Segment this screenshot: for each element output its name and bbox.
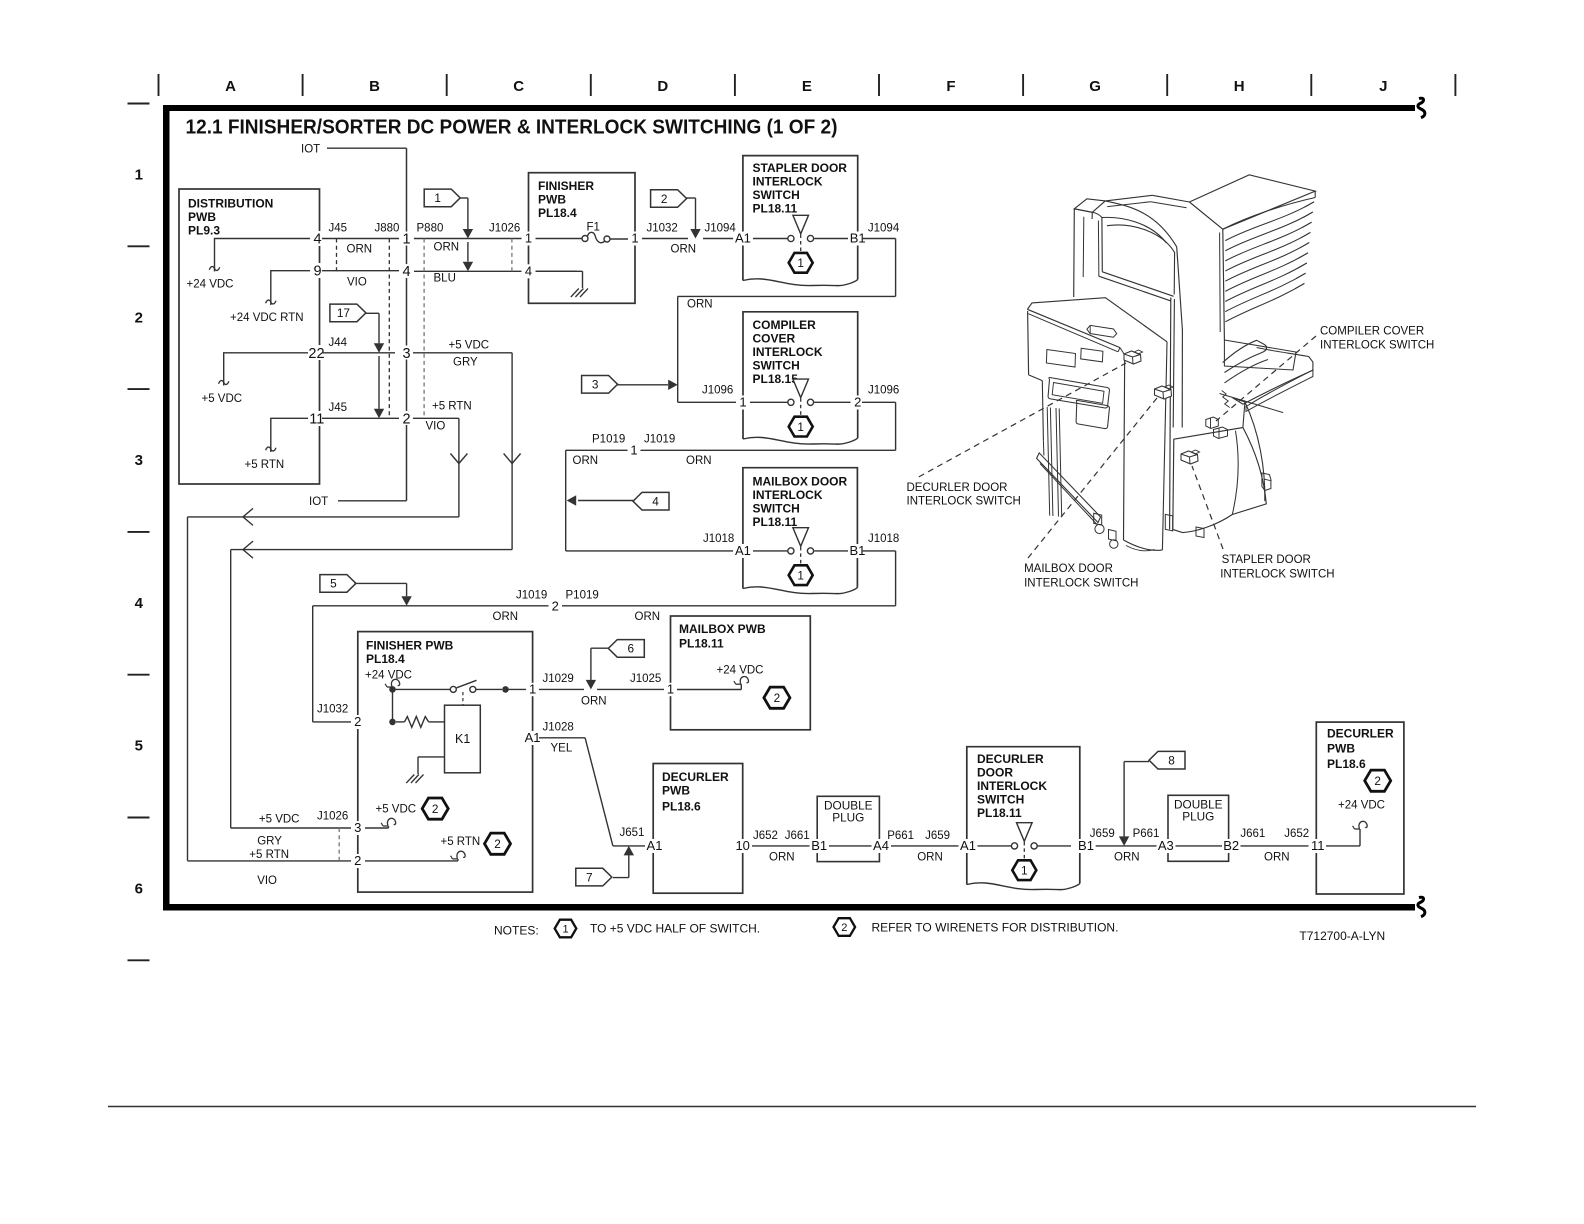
pin A1 J1028 (finisher PWB right) <box>523 730 543 745</box>
svg-text:1: 1 <box>797 420 804 434</box>
svg-text:MAILBOX DOOR: MAILBOX DOOR <box>753 475 848 489</box>
finisher/sorter machine illustration <box>1027 175 1315 551</box>
svg-text:J44: J44 <box>329 337 348 349</box>
J1032 label <box>317 704 348 716</box>
svg-text:J1019: J1019 <box>516 590 547 602</box>
pin A1 J651 (decurler PWB) <box>645 838 664 853</box>
svg-text:+24 VDC: +24 VDC <box>187 279 234 291</box>
svg-text:2: 2 <box>1374 774 1381 788</box>
svg-text:J652: J652 <box>1284 828 1309 840</box>
svg-text:6: 6 <box>628 642 635 656</box>
svg-text:F: F <box>946 78 955 95</box>
svg-text:PL18.6: PL18.6 <box>1327 757 1366 771</box>
svg-text:2: 2 <box>854 395 861 410</box>
connector label J1094 (left) <box>705 223 737 235</box>
svg-text:MAILBOX PWB: MAILBOX PWB <box>679 622 766 636</box>
wire ORN compiler pin 2 to mailbox switch A1 <box>566 402 896 551</box>
svg-text:2: 2 <box>432 802 439 816</box>
connector label J44 <box>329 337 348 349</box>
svg-text:PWB: PWB <box>538 193 566 207</box>
svg-text:4: 4 <box>402 264 410 280</box>
svg-text:A1: A1 <box>960 838 976 853</box>
connector label J1096 (right) <box>868 385 899 397</box>
svg-text:P1019: P1019 <box>566 590 599 602</box>
svg-text:+5 RTN: +5 RTN <box>249 849 289 861</box>
svg-text:J661: J661 <box>785 830 810 842</box>
pin 9 (distribution PWB) <box>311 263 326 280</box>
svg-text:3: 3 <box>402 346 410 362</box>
pointer flag 3 <box>582 376 678 394</box>
svg-text:+5 RTN: +5 RTN <box>432 401 472 413</box>
svg-text:J1032: J1032 <box>647 223 678 235</box>
svg-text:ORN: ORN <box>581 696 607 708</box>
pointer flag 1 (to +24VDC wires) <box>424 189 473 271</box>
svg-text:INTERLOCK: INTERLOCK <box>753 488 823 502</box>
label compiler cover interlock switch <box>1320 326 1434 352</box>
svg-text:A1: A1 <box>735 231 751 246</box>
title <box>186 117 838 139</box>
pin 4 J45 (distribution PWB) <box>311 231 326 248</box>
svg-text:A1: A1 <box>735 543 751 558</box>
svg-text:+5 VDC: +5 VDC <box>449 340 490 352</box>
svg-text:PL18.11: PL18.11 <box>679 637 724 651</box>
svg-text:PWB: PWB <box>188 210 216 224</box>
leader to decurler door interlock switch <box>919 363 1126 477</box>
svg-text:E: E <box>802 78 812 95</box>
svg-text:F1: F1 <box>587 222 600 234</box>
svg-text:COMPILER COVER: COMPILER COVER <box>1320 326 1424 338</box>
connector label J880 <box>375 223 400 235</box>
svg-text:ORN: ORN <box>573 455 599 467</box>
wire ORN double plug B2 to J652-11 <box>1240 828 1310 864</box>
svg-text:J651: J651 <box>620 827 645 839</box>
svg-text:J1019: J1019 <box>644 434 675 446</box>
svg-text:DECURLER: DECURLER <box>977 752 1044 766</box>
drawing number T712700-A-LYN <box>1299 929 1385 943</box>
svg-text:J1026: J1026 <box>489 223 520 235</box>
svg-text:A1: A1 <box>525 730 541 745</box>
fuse F1 <box>582 222 610 243</box>
svg-text:1: 1 <box>562 924 568 936</box>
svg-text:PWB: PWB <box>662 784 690 798</box>
svg-text:J659: J659 <box>1090 828 1115 840</box>
label decurler door interlock switch <box>907 482 1021 508</box>
svg-text:1: 1 <box>739 395 746 410</box>
+24 VDC stub (distribution PWB pin 4) <box>187 239 311 291</box>
svg-text:INTERLOCK: INTERLOCK <box>977 779 1047 793</box>
svg-text:DOOR: DOOR <box>977 766 1013 780</box>
pointer flag 7 <box>576 846 634 886</box>
svg-text:+24 VDC RTN: +24 VDC RTN <box>230 312 304 324</box>
pointer flag 5 <box>320 575 412 606</box>
svg-text:1: 1 <box>797 568 804 582</box>
svg-text:ORN: ORN <box>493 611 519 623</box>
wire inside double plug 1 <box>829 845 872 847</box>
svg-text:1: 1 <box>797 256 804 270</box>
svg-text:GRY: GRY <box>257 836 282 848</box>
+24 VDC RTN stub (distribution PWB pin 9) <box>230 271 310 324</box>
svg-text:NOTES:: NOTES: <box>494 924 539 938</box>
note hexagon 2 <box>834 918 856 936</box>
pin A1 mailbox switch <box>733 543 753 558</box>
svg-text:PL18.15: PL18.15 <box>753 372 799 386</box>
pin B1 double plug 1 <box>810 838 830 853</box>
IOT label (top) <box>301 144 407 156</box>
svg-text:MAILBOX DOOR: MAILBOX DOOR <box>1024 563 1113 575</box>
stapler door interlock switch PL18.11 <box>743 156 858 286</box>
J1026 connector dash (top) <box>511 239 513 272</box>
svg-text:DECURLER: DECURLER <box>662 770 729 784</box>
svg-text:INTERLOCK SWITCH: INTERLOCK SWITCH <box>1024 578 1138 590</box>
wire inside double plug 2 <box>1176 845 1223 847</box>
wire +5VDC GRY (J44-22 to P880-3) <box>322 340 512 369</box>
svg-text:1: 1 <box>667 682 674 697</box>
decurler PWB PL18.6 (left) <box>653 764 743 894</box>
finisher PWB PL18.4 (top) <box>529 173 636 304</box>
svg-text:DECURLER DOOR: DECURLER DOOR <box>907 482 1008 494</box>
svg-text:1: 1 <box>525 231 532 246</box>
pin 4 J1026 (finisher PWB left) <box>522 263 536 278</box>
wire ORN decurler B1 to double plug A3 <box>1090 828 1160 864</box>
connector label J45 <box>329 223 348 235</box>
svg-text:1: 1 <box>1021 863 1028 877</box>
pin A3 double plug 2 <box>1157 838 1176 853</box>
+5 RTN stub (distribution PWB pin 11) <box>245 418 311 471</box>
leader to compiler cover interlock switch <box>1216 336 1316 421</box>
svg-text:7: 7 <box>586 870 593 884</box>
svg-text:IOT: IOT <box>309 496 328 508</box>
+24 VDC stub wire (decurler PWB right) <box>1326 821 1367 846</box>
svg-text:J1025: J1025 <box>630 673 661 685</box>
svg-text:FINISHER PWB: FINISHER PWB <box>366 639 454 653</box>
connector label J1018 (right) <box>868 533 899 545</box>
svg-text:4: 4 <box>525 263 532 278</box>
svg-text:J659: J659 <box>925 830 950 842</box>
svg-text:+5 VDC: +5 VDC <box>202 393 243 405</box>
svg-text:INTERLOCK: INTERLOCK <box>753 175 823 189</box>
pin A1 decurler switch <box>959 838 978 853</box>
svg-text:GRY: GRY <box>453 357 478 369</box>
connector label J1096 (left) <box>702 385 733 397</box>
note 1 text <box>590 922 760 936</box>
pin 2 J1019 (lower) <box>549 599 563 614</box>
pointer flag 17 (to +5V wires) <box>330 304 384 418</box>
svg-text:2: 2 <box>354 714 361 729</box>
mailbox door interlock switch PL18.11 <box>743 468 858 594</box>
svg-text:REFER TO WIRENETS FOR DISTRIBU: REFER TO WIRENETS FOR DISTRIBUTION. <box>872 921 1119 935</box>
svg-text:B2: B2 <box>1223 838 1239 853</box>
finisher PWB PL18.4 (bottom) <box>358 632 533 893</box>
svg-text:SWITCH: SWITCH <box>753 502 800 516</box>
svg-text:INTERLOCK SWITCH: INTERLOCK SWITCH <box>1320 340 1434 352</box>
svg-text:ORN: ORN <box>687 299 713 311</box>
IOT label (bottom) <box>309 496 407 508</box>
note 2 text <box>872 921 1119 935</box>
connector label J1032 <box>647 223 678 235</box>
mailbox door interlock switch icon <box>1155 385 1174 399</box>
wire YEL J1028-A1 to J651-A1 <box>539 722 645 846</box>
svg-text:ORN: ORN <box>769 852 795 864</box>
wire +5VDC GRY routing (to J1026-3) <box>231 353 521 848</box>
footer rule <box>108 1106 1476 1108</box>
J1026 connector dash (bottom) <box>338 828 340 861</box>
svg-text:P1019: P1019 <box>592 434 625 446</box>
svg-text:ORN: ORN <box>347 244 373 256</box>
svg-text:ORN: ORN <box>686 455 712 467</box>
svg-text:T712700-A-LYN: T712700-A-LYN <box>1299 929 1385 943</box>
svg-text:J652: J652 <box>753 830 778 842</box>
relay K1 coil <box>396 705 480 773</box>
K1 relay contact switch <box>393 680 527 705</box>
+5 RTN stub with hexagon 2 (finisher PWB) <box>364 833 511 861</box>
svg-text:J1028: J1028 <box>543 722 574 734</box>
svg-text:TO +5 VDC HALF OF SWITCH.: TO +5 VDC HALF OF SWITCH. <box>590 922 760 936</box>
svg-text:J1018: J1018 <box>868 533 899 545</box>
svg-text:5: 5 <box>135 738 143 755</box>
svg-text:PL18.6: PL18.6 <box>662 800 701 814</box>
svg-text:3: 3 <box>135 452 143 469</box>
connector label P880 <box>417 223 444 235</box>
pin 11 J652 (decurler PWB right) <box>1309 838 1328 853</box>
svg-text:ORN: ORN <box>434 242 460 254</box>
svg-text:J1032: J1032 <box>317 704 348 716</box>
svg-text:2: 2 <box>774 691 781 705</box>
svg-text:2: 2 <box>135 309 143 326</box>
svg-text:J1096: J1096 <box>868 385 899 397</box>
decurler door interlock switch PL18.11 <box>967 747 1080 890</box>
svg-text:K1: K1 <box>455 732 470 746</box>
pin 1 J1032 (finisher PWB right) <box>628 231 642 246</box>
leader to mailbox door interlock switch <box>1028 396 1159 559</box>
pointer flag 8 <box>1119 751 1185 846</box>
P880 connector line (IOT boundary) <box>406 148 408 501</box>
svg-text:P661: P661 <box>887 830 914 842</box>
svg-text:J880: J880 <box>375 223 400 235</box>
double plug (left) <box>817 796 879 861</box>
svg-text:J1026: J1026 <box>317 811 348 823</box>
svg-text:C: C <box>513 78 524 95</box>
connector label J1018 (left) <box>703 533 734 545</box>
svg-text:D: D <box>657 78 668 95</box>
svg-text:11: 11 <box>309 411 324 427</box>
wire +24VDC RTN BLU (P880-4 to J1026-4) <box>413 271 577 284</box>
P880 connector dash (gray) <box>423 239 425 417</box>
pin 2 P880 <box>399 411 414 427</box>
svg-text:INTERLOCK: INTERLOCK <box>753 345 823 359</box>
decurler PWB PL18.6 (right) <box>1316 722 1404 894</box>
wire ORN J652-10 to double plug B1 <box>752 830 810 864</box>
svg-text:J45: J45 <box>329 402 348 414</box>
mailbox PWB PL18.11 <box>671 616 811 730</box>
chassis ground (K1) <box>406 757 444 783</box>
pin 3 P880 <box>399 346 414 362</box>
compiler cover interlock switch PL18.15 <box>743 312 858 444</box>
svg-text:2: 2 <box>552 599 559 614</box>
+24 VDC stub and junction (finisher PWB) <box>365 670 412 726</box>
svg-text:DISTRIBUTION: DISTRIBUTION <box>188 197 273 211</box>
svg-text:3: 3 <box>354 820 361 835</box>
svg-text:J1018: J1018 <box>703 533 734 545</box>
svg-text:ORN: ORN <box>917 852 943 864</box>
mailbox switch contacts <box>749 528 851 585</box>
svg-text:2: 2 <box>354 853 361 868</box>
svg-text:STAPLER DOOR: STAPLER DOOR <box>1222 554 1311 566</box>
connector label J1026 <box>489 223 520 235</box>
wire ORN stapler B1 to compiler switch pin 1 <box>678 239 896 403</box>
svg-text:11: 11 <box>1311 838 1325 853</box>
svg-text:VIO: VIO <box>257 875 277 887</box>
svg-text:+5 VDC: +5 VDC <box>376 804 417 816</box>
svg-text:PL18.4: PL18.4 <box>366 652 405 666</box>
svg-text:SWITCH: SWITCH <box>753 359 800 373</box>
svg-text:DECURLER: DECURLER <box>1327 727 1394 741</box>
svg-text:2: 2 <box>494 837 501 851</box>
pin 1 compiler <box>736 395 750 410</box>
svg-text:1: 1 <box>402 232 410 248</box>
svg-text:H: H <box>1234 78 1245 95</box>
label stapler door interlock switch <box>1220 554 1334 581</box>
pin B1 mailbox switch <box>848 543 868 558</box>
J880 connector dash <box>388 239 390 418</box>
svg-text:P880: P880 <box>417 223 444 235</box>
pointer flag 2 <box>651 190 701 239</box>
note hexagon 1 <box>555 920 577 938</box>
svg-text:J1029: J1029 <box>543 673 574 685</box>
svg-text:ORN: ORN <box>1264 852 1290 864</box>
svg-text:+5 RTN: +5 RTN <box>441 836 481 848</box>
page frame <box>163 98 1425 917</box>
svg-text:1: 1 <box>135 167 143 184</box>
pin 1 J1025 (mailbox PWB) <box>664 682 677 697</box>
pin 10 J652 (decurler PWB) <box>734 838 752 853</box>
+24 VDC stub with hexagon 2 (mailbox PWB) <box>677 665 790 709</box>
svg-text:PL18.11: PL18.11 <box>977 806 1022 820</box>
svg-text:J: J <box>1379 78 1387 95</box>
wire F1 to J1032-1 <box>610 238 629 240</box>
pin 3 J1026 (finisher PWB) <box>351 820 365 835</box>
svg-text:COVER: COVER <box>753 332 796 346</box>
svg-text:+24 VDC: +24 VDC <box>365 670 412 682</box>
compiler switch contacts <box>749 379 851 436</box>
svg-text:J1094: J1094 <box>868 223 900 235</box>
pin 2 compiler <box>851 395 865 410</box>
svg-text:ORN: ORN <box>635 611 661 623</box>
distribution PWB PL9.3 <box>179 189 320 484</box>
svg-text:4: 4 <box>135 595 144 612</box>
pin A1 stapler <box>733 231 753 246</box>
pointer flag 6 <box>586 640 645 690</box>
svg-text:+5 VDC: +5 VDC <box>259 814 300 826</box>
decurler switch contacts <box>977 823 1071 880</box>
svg-text:YEL: YEL <box>551 743 573 755</box>
svg-text:A1: A1 <box>647 838 663 853</box>
svg-text:9: 9 <box>313 264 321 280</box>
svg-text:INTERLOCK SWITCH: INTERLOCK SWITCH <box>1220 569 1334 581</box>
+5 VDC stub with hexagon 2 (finisher PWB) <box>364 798 448 828</box>
wire +24VDC ORN (J45-4 to F1) <box>322 239 582 256</box>
svg-text:FINISHER: FINISHER <box>538 179 594 193</box>
stapler door interlock switch icon <box>1181 450 1200 464</box>
svg-text:ORN: ORN <box>1114 852 1140 864</box>
svg-text:6: 6 <box>135 881 143 898</box>
svg-text:3: 3 <box>592 378 599 392</box>
connector label J45 (lower) <box>329 402 348 414</box>
pin 4 P880 <box>399 264 414 280</box>
pin 1 J1019 (upper) <box>628 443 641 458</box>
svg-text:PLUG: PLUG <box>832 811 864 825</box>
svg-text:2: 2 <box>402 411 410 427</box>
svg-text:IOT: IOT <box>301 144 320 156</box>
column header ruler <box>159 74 1456 96</box>
svg-text:+24 VDC: +24 VDC <box>1338 800 1385 812</box>
svg-text:J1096: J1096 <box>702 385 733 397</box>
svg-text:1: 1 <box>631 231 638 246</box>
notes label <box>494 924 539 938</box>
svg-text:J661: J661 <box>1240 828 1265 840</box>
wire +5RTN VIO routing (to J1026-2) <box>188 418 468 887</box>
svg-text:PLUG: PLUG <box>1182 810 1214 824</box>
svg-text:12.1 FINISHER/SORTER DC POWER: 12.1 FINISHER/SORTER DC POWER & INTERLOC… <box>186 117 838 139</box>
svg-text:10: 10 <box>735 838 749 853</box>
svg-text:J45: J45 <box>329 223 348 235</box>
svg-text:+5 RTN: +5 RTN <box>245 459 285 471</box>
chassis ground (finisher PWB pin 4) <box>534 271 588 297</box>
svg-text:17: 17 <box>337 306 350 320</box>
svg-text:22: 22 <box>308 346 324 362</box>
stapler switch contacts <box>749 215 851 272</box>
pin 2 J1026 (finisher PWB) <box>351 853 365 868</box>
wire ORN mailbox B1 to J1019-2 to J1032-2 <box>313 551 896 722</box>
pin B1 stapler <box>848 231 868 246</box>
leader to stapler door interlock switch <box>1192 466 1223 549</box>
svg-text:PL18.4: PL18.4 <box>538 206 577 220</box>
svg-text:+24 VDC: +24 VDC <box>717 665 764 677</box>
wire ORN J1032-1 to stapler switch A1 <box>642 239 736 256</box>
svg-text:J1094: J1094 <box>705 223 737 235</box>
svg-text:B: B <box>369 78 380 95</box>
decurler door interlock switch icon <box>1124 350 1143 364</box>
connector label J1094 (right) <box>868 223 900 235</box>
svg-text:COMPILER: COMPILER <box>753 318 817 332</box>
svg-text:1: 1 <box>434 191 441 205</box>
svg-text:A: A <box>225 78 236 95</box>
svg-text:8: 8 <box>1168 754 1175 768</box>
wire +24VDC RTN VIO (J45-9 to P880-4) <box>322 271 400 289</box>
svg-text:SWITCH: SWITCH <box>753 188 800 202</box>
pointer flag 4 <box>567 492 669 510</box>
J45 connector dash <box>336 239 338 272</box>
svg-text:2: 2 <box>841 922 847 934</box>
wire ORN A4 to decurler switch A1 <box>887 830 959 864</box>
wire +5RTN VIO (J45-11 to P880-2) <box>322 401 472 433</box>
svg-text:SWITCH: SWITCH <box>977 793 1024 807</box>
svg-text:STAPLER DOOR: STAPLER DOOR <box>753 161 848 175</box>
double plug (right) <box>1168 795 1229 861</box>
svg-text:PL18.11: PL18.11 <box>753 515 798 529</box>
pin 11 J45 (distribution PWB) <box>308 411 327 427</box>
svg-text:1: 1 <box>529 682 536 697</box>
svg-text:4: 4 <box>313 232 321 248</box>
pin A4 double plug 1 <box>872 838 892 853</box>
svg-text:4: 4 <box>652 495 659 509</box>
svg-text:PL18.11: PL18.11 <box>753 202 798 216</box>
J1026 label (finisher PWB) <box>317 811 348 823</box>
svg-text:2: 2 <box>661 192 668 206</box>
svg-text:PWB: PWB <box>1327 742 1355 756</box>
label mailbox door interlock switch <box>1024 563 1138 590</box>
row header ruler <box>128 104 150 961</box>
+5 VDC stub (distribution PWB pin 22) <box>202 353 311 405</box>
